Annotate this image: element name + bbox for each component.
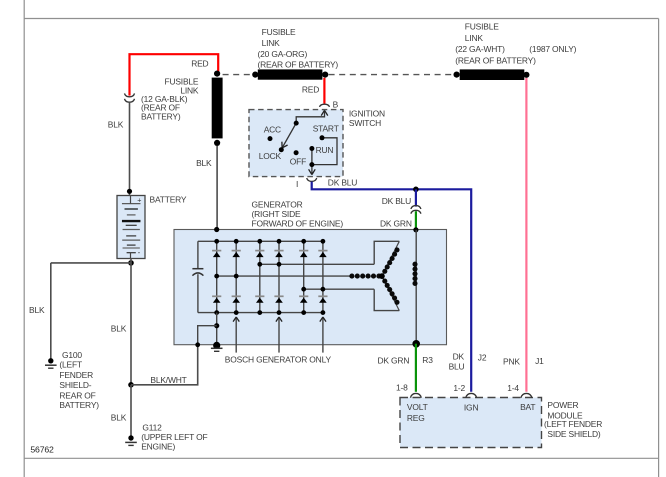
- svg-text:BLK: BLK: [108, 120, 124, 130]
- svg-text:DK GRN: DK GRN: [378, 356, 410, 366]
- svg-text:BLK: BLK: [111, 413, 127, 423]
- svg-text:G100: G100: [62, 350, 82, 360]
- svg-text:LINK: LINK: [465, 33, 484, 43]
- svg-text:SIDE SHIELD): SIDE SHIELD): [547, 429, 601, 439]
- svg-text:BLK/WHT: BLK/WHT: [150, 375, 186, 385]
- svg-text:1-4: 1-4: [507, 383, 519, 393]
- svg-text:R3: R3: [422, 355, 433, 365]
- svg-text:BOSCH GENERATOR ONLY: BOSCH GENERATOR ONLY: [225, 355, 332, 365]
- svg-text:FUSIBLE: FUSIBLE: [262, 27, 296, 37]
- svg-text:ACC: ACC: [264, 124, 281, 134]
- svg-text:SWITCH: SWITCH: [349, 118, 381, 128]
- svg-text:(20 GA-ORG): (20 GA-ORG): [258, 49, 308, 59]
- svg-text:VOLT: VOLT: [407, 402, 428, 412]
- svg-text:ENGINE): ENGINE): [141, 442, 175, 452]
- svg-text:(22 GA-WHT): (22 GA-WHT): [455, 44, 505, 54]
- svg-text:BAT: BAT: [520, 402, 535, 412]
- svg-text:DK BLU: DK BLU: [328, 177, 357, 187]
- svg-text:FUSIBLE: FUSIBLE: [465, 21, 499, 31]
- svg-text:I: I: [296, 179, 298, 189]
- svg-text:1-2: 1-2: [453, 383, 465, 393]
- svg-text:BLK: BLK: [196, 158, 212, 168]
- svg-text:LOCK: LOCK: [259, 151, 282, 161]
- svg-text:IGN: IGN: [464, 402, 479, 412]
- svg-text:START: START: [313, 124, 339, 134]
- svg-text:BLU: BLU: [449, 362, 465, 372]
- svg-text:GENERATOR: GENERATOR: [252, 199, 303, 209]
- svg-text:POWER: POWER: [547, 400, 578, 410]
- svg-text:(RIGHT SIDE: (RIGHT SIDE: [252, 209, 302, 219]
- svg-text:DK GRN: DK GRN: [380, 218, 412, 228]
- svg-text:RED: RED: [302, 84, 319, 94]
- svg-text:+: +: [137, 196, 141, 205]
- svg-text:(UPPER LEFT OF: (UPPER LEFT OF: [141, 432, 207, 442]
- svg-text:RUN: RUN: [316, 145, 334, 155]
- svg-text:SHIELD-: SHIELD-: [59, 380, 91, 390]
- svg-text:DK: DK: [453, 352, 465, 362]
- svg-text:J2: J2: [478, 353, 487, 363]
- svg-text:56762: 56762: [30, 444, 54, 454]
- svg-text:(REAR OF BATTERY): (REAR OF BATTERY): [258, 60, 339, 70]
- svg-text:OFF: OFF: [290, 157, 306, 167]
- svg-text:B: B: [333, 100, 339, 110]
- svg-text:(REAR OF BATTERY): (REAR OF BATTERY): [455, 55, 536, 65]
- svg-text:J1: J1: [535, 356, 544, 366]
- svg-text:PNK: PNK: [503, 357, 520, 367]
- svg-text:FORWARD OF ENGINE): FORWARD OF ENGINE): [252, 219, 344, 229]
- svg-text:LINK: LINK: [262, 38, 281, 48]
- svg-text:REG: REG: [407, 413, 425, 423]
- svg-text:(1987 ONLY): (1987 ONLY): [529, 44, 576, 54]
- svg-text:RED: RED: [191, 59, 208, 69]
- svg-text:FENDER: FENDER: [59, 370, 93, 380]
- svg-text:BATTERY): BATTERY): [59, 400, 99, 410]
- svg-text:BLK: BLK: [111, 324, 127, 334]
- svg-text:DK BLU: DK BLU: [382, 196, 411, 206]
- svg-text:BATTERY: BATTERY: [150, 195, 187, 205]
- svg-text:BLK: BLK: [29, 305, 45, 315]
- svg-text:1-8: 1-8: [396, 382, 408, 392]
- svg-text:(LEFT: (LEFT: [59, 359, 82, 369]
- svg-text:(LEFT FENDER: (LEFT FENDER: [544, 419, 602, 429]
- svg-text:REAR OF: REAR OF: [59, 390, 95, 400]
- svg-text:BATTERY): BATTERY): [141, 111, 181, 121]
